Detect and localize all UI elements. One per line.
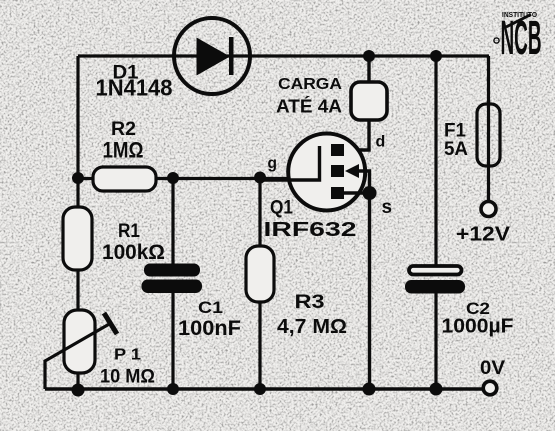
svg-text:10 MΩ: 10 MΩ [100, 366, 155, 388]
svg-text:0V: 0V [480, 357, 505, 379]
svg-text:s: s [382, 197, 393, 218]
svg-text:IRF632: IRF632 [264, 219, 357, 241]
capacitor C2 [405, 266, 465, 294]
svg-text:ATÉ 4A: ATÉ 4A [276, 96, 342, 117]
wire top rail [78, 54, 489, 57]
wire bottom rail [45, 387, 483, 390]
node bottom C1 junction [167, 383, 179, 395]
wire left rail [76, 56, 79, 390]
load box CARGA [351, 82, 387, 120]
svg-text:+12V: +12V [456, 224, 511, 246]
node gate-C1 junction [167, 172, 179, 184]
wire drain branch [344, 56, 369, 150]
transistor Q1 MOSFET [261, 134, 370, 211]
svg-text:1MΩ: 1MΩ [103, 138, 144, 163]
wire C2 branch upper [434, 56, 437, 266]
terminal 0V [483, 381, 497, 395]
svg-text:P 1: P 1 [114, 347, 141, 364]
diode D1 [174, 18, 250, 94]
svg-text:d: d [376, 134, 386, 151]
svg-text:C1: C1 [198, 298, 223, 317]
wire fuse branch [487, 56, 490, 201]
svg-text:1000µF: 1000µF [442, 316, 514, 338]
node top C2 junction [430, 50, 442, 62]
wire C1 branch lower [171, 292, 174, 389]
node bottom P1 junction [72, 384, 85, 397]
wire R3 branch [258, 178, 261, 389]
terminal +12V [481, 202, 496, 217]
svg-text:100kΩ: 100kΩ [102, 240, 165, 264]
node gate-left junction [72, 172, 84, 184]
logo INSTITUTO NCB [494, 10, 542, 65]
node bottom source junction [363, 383, 376, 396]
potentiometer P1 wiper [45, 313, 117, 389]
fuse F1 [477, 104, 500, 166]
node bottom C2 junction [430, 383, 443, 396]
svg-text:Q1: Q1 [270, 198, 293, 219]
svg-text:R3: R3 [295, 291, 325, 313]
node source junction [363, 186, 377, 200]
node bottom R3 junction [254, 383, 266, 395]
svg-text:100nF: 100nF [178, 317, 241, 340]
svg-text:4,7 MΩ: 4,7 MΩ [277, 315, 347, 338]
svg-text:1N4148: 1N4148 [96, 75, 173, 101]
svg-text:g: g [268, 155, 277, 172]
svg-text:5A: 5A [444, 138, 468, 160]
wire C1 branch upper [171, 178, 174, 265]
svg-text:R1: R1 [118, 220, 140, 242]
potentiometer P1 [64, 310, 95, 373]
resistor R1 [63, 207, 92, 270]
capacitor C1 [142, 264, 203, 294]
resistor R3 [246, 246, 274, 302]
wire source branch [368, 193, 371, 389]
wire gate net [78, 177, 320, 180]
resistor R2 [93, 167, 156, 191]
svg-text:CARGA: CARGA [278, 76, 342, 93]
wire C2 branch lower [434, 292, 437, 389]
node top drain junction [363, 50, 375, 62]
node gate-R3 junction [254, 172, 266, 184]
